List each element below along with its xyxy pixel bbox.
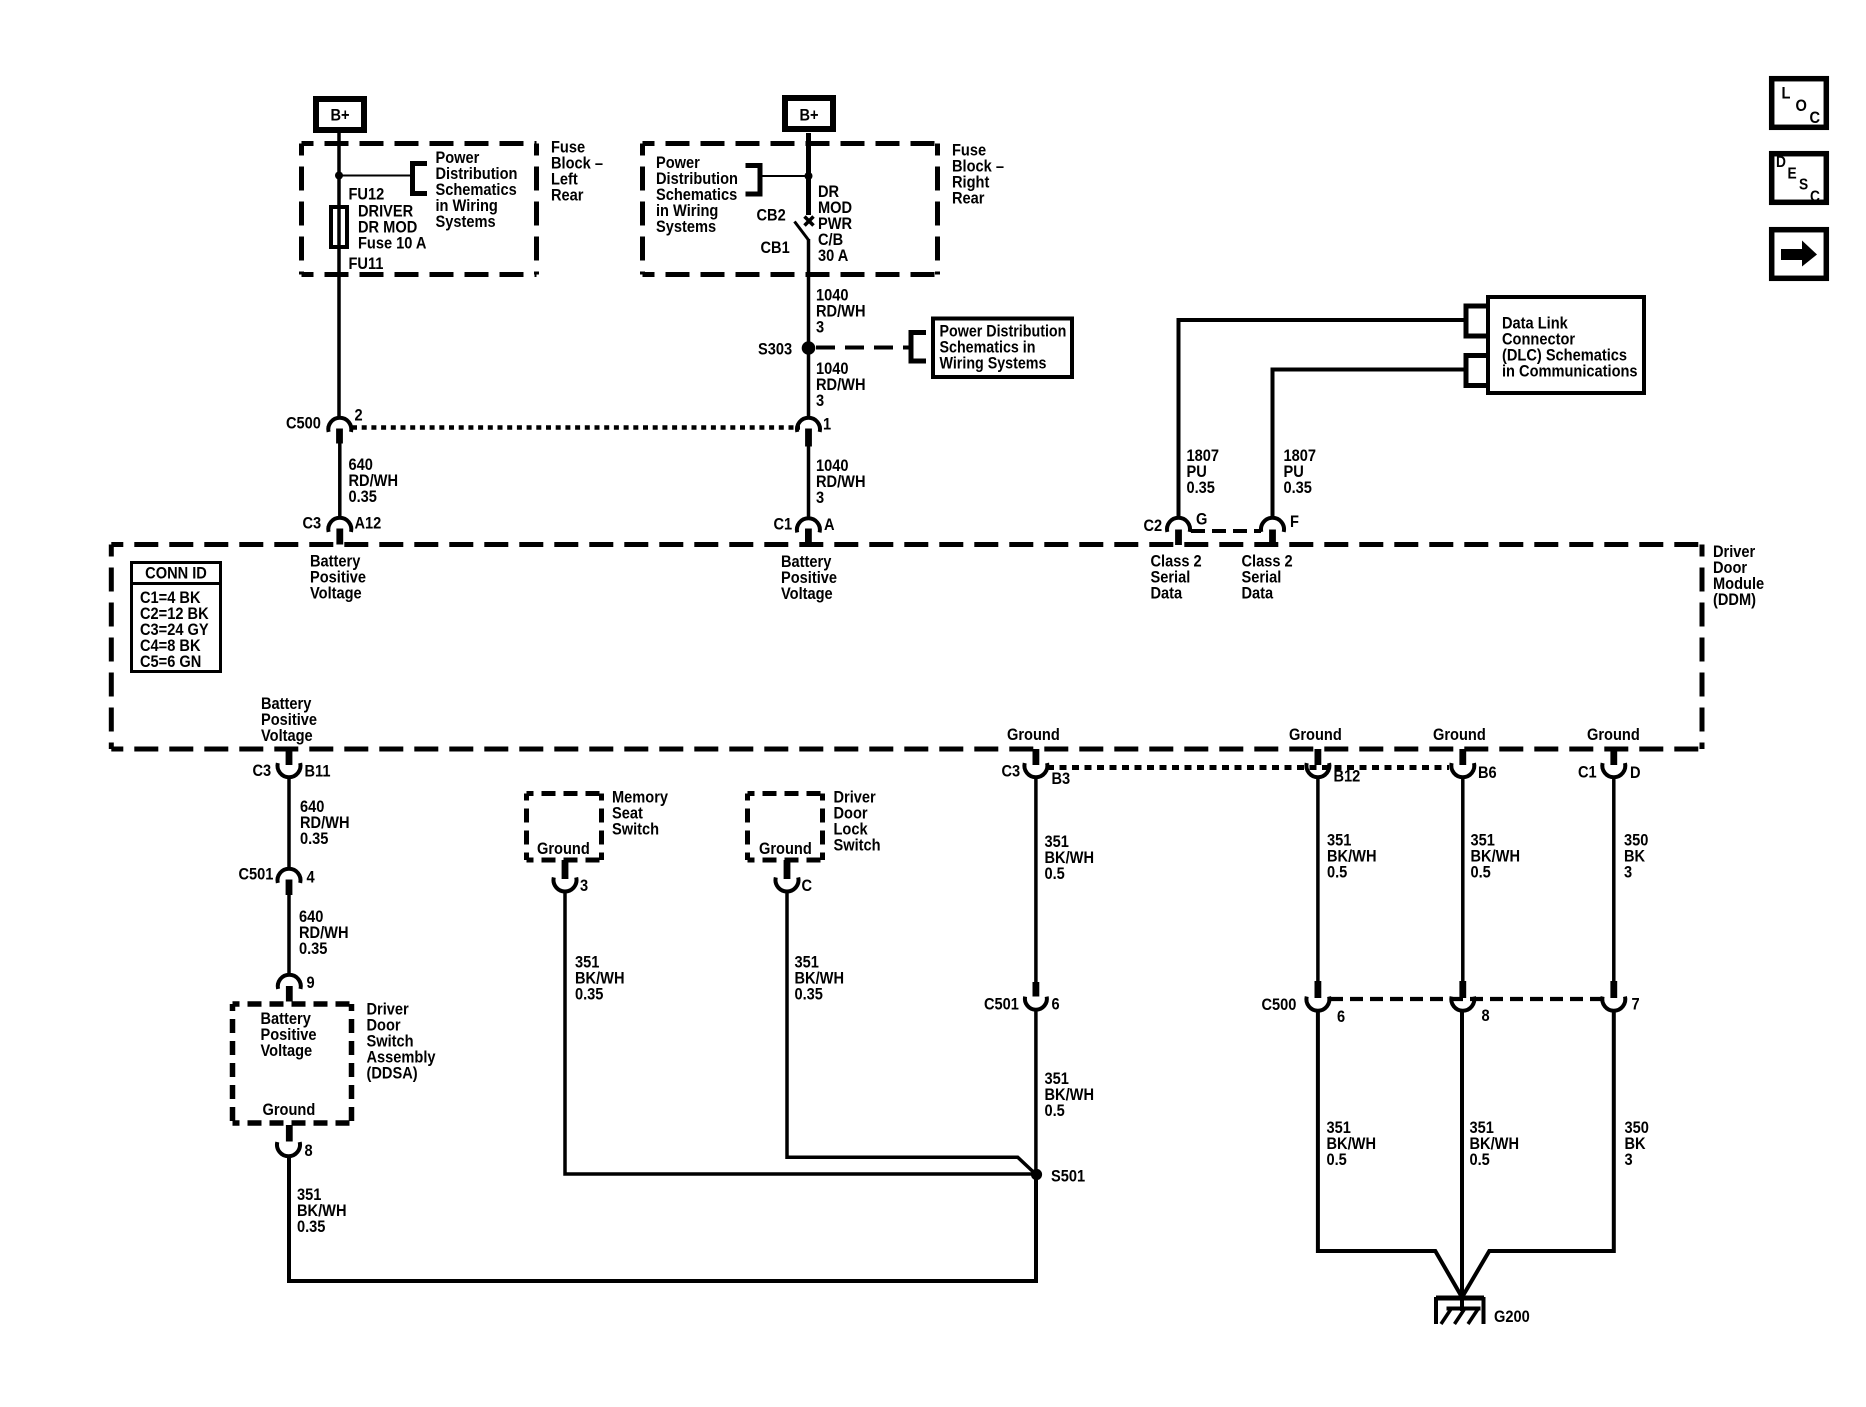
memory seat switch dashed box <box>527 791 602 796</box>
connector pin B6 out of DDM <box>1459 749 1466 765</box>
svg-text:6: 6 <box>1052 996 1060 1014</box>
svg-text:Switch: Switch <box>834 837 881 855</box>
svg-text:3: 3 <box>1624 864 1632 882</box>
svg-text:Rear: Rear <box>952 190 984 208</box>
svg-text:S: S <box>1799 176 1808 194</box>
svg-text:30 A: 30 A <box>818 247 849 265</box>
svg-text:C: C <box>1810 109 1821 127</box>
splice S501 <box>1031 1169 1042 1180</box>
svg-text:E: E <box>1788 164 1797 182</box>
connector pin 8 out of DDSA <box>286 1125 293 1142</box>
wire thick <box>806 133 811 215</box>
svg-text:C3: C3 <box>303 515 322 533</box>
svg-text:Voltage: Voltage <box>310 585 362 603</box>
fuse block left rear dashed box <box>302 141 537 146</box>
svg-text:3: 3 <box>816 319 824 337</box>
svg-text:C501: C501 <box>239 866 274 884</box>
fuse DRIVER DR MOD Fuse 10 A <box>331 207 347 247</box>
svg-text:B3: B3 <box>1052 770 1071 788</box>
svg-text:CONN ID: CONN ID <box>145 565 207 583</box>
svg-text:2: 2 <box>355 407 363 425</box>
svg-text:0.35: 0.35 <box>300 830 329 848</box>
svg-text:C5=6 GN: C5=6 GN <box>140 653 201 671</box>
dotted connector line C500 <box>352 425 800 430</box>
wire <box>337 133 341 418</box>
wire <box>1316 777 1320 983</box>
arrow legend box <box>1772 230 1827 279</box>
dashed connector line C500 6-8-7 <box>1330 997 1602 1001</box>
svg-text:C1: C1 <box>774 516 793 534</box>
connector C500 pin 1 <box>797 418 820 432</box>
svg-text:3: 3 <box>580 877 588 895</box>
svg-text:G200: G200 <box>1494 1308 1530 1326</box>
bracket pointer S303 box <box>911 333 926 362</box>
connector pin 3 memory seat <box>562 860 569 879</box>
svg-text:Ground: Ground <box>1007 726 1060 744</box>
svg-text:0.5: 0.5 <box>1045 1102 1065 1120</box>
DLC wire from F <box>1273 370 1465 519</box>
svg-text:FU11: FU11 <box>349 255 384 273</box>
svg-text:8: 8 <box>1482 1007 1490 1025</box>
svg-text:(DDM): (DDM) <box>1713 591 1756 609</box>
wire <box>1612 777 1616 983</box>
svg-text:D: D <box>1630 764 1641 782</box>
svg-text:0.35: 0.35 <box>299 940 328 958</box>
connector C500 pin 8 row2 <box>1459 981 1466 998</box>
DLC wire from C2 G <box>1179 320 1465 518</box>
svg-text:B+: B+ <box>799 107 818 125</box>
svg-text:4: 4 <box>307 869 315 887</box>
svg-text:0.5: 0.5 <box>1327 1151 1347 1169</box>
DESC legend box <box>1772 154 1827 203</box>
svg-text:8: 8 <box>305 1142 313 1160</box>
dashed connector line G-F <box>1191 529 1261 533</box>
wire to schematic bracket <box>339 175 412 177</box>
svg-text:FU12: FU12 <box>349 186 385 204</box>
wire <box>1461 777 1465 983</box>
wire <box>807 447 811 520</box>
svg-text:C2: C2 <box>1144 517 1163 535</box>
svg-text:0.35: 0.35 <box>795 986 824 1004</box>
svg-text:L: L <box>1782 85 1791 103</box>
svg-text:F: F <box>1290 513 1299 531</box>
svg-text:Ground: Ground <box>759 840 812 858</box>
wire to ground <box>1461 1011 1614 1300</box>
svg-text:C: C <box>802 877 813 895</box>
svg-text:C3: C3 <box>253 762 272 780</box>
svg-text:D: D <box>1776 153 1786 171</box>
svg-text:CB2: CB2 <box>757 207 786 225</box>
svg-text:Ground: Ground <box>1433 726 1486 744</box>
svg-text:C500: C500 <box>1262 996 1297 1014</box>
svg-text:3: 3 <box>816 392 824 410</box>
svg-text:0.35: 0.35 <box>297 1218 326 1236</box>
svg-text:C501: C501 <box>984 996 1019 1014</box>
svg-text:B+: B+ <box>330 107 349 125</box>
connector C3 pin B11 out of DDM <box>286 749 293 765</box>
svg-text:in Communications: in Communications <box>1502 363 1638 381</box>
svg-text:0.5: 0.5 <box>1471 864 1491 882</box>
svg-text:Voltage: Voltage <box>261 1042 313 1060</box>
wire <box>1034 777 1038 983</box>
connector pin F into DDM <box>1261 518 1284 532</box>
svg-text:0.5: 0.5 <box>1327 864 1347 882</box>
fuse block right rear dashed box <box>643 141 938 146</box>
svg-text:9: 9 <box>307 974 315 992</box>
driver door module DDM dashed box <box>111 542 1702 547</box>
battery feed B+ left <box>316 99 364 130</box>
wire <box>338 444 342 519</box>
svg-text:7: 7 <box>1632 996 1640 1014</box>
bracket pointer DLC lower <box>1466 356 1486 386</box>
reference box Power Distribution Schematics in Wiring Systems <box>933 319 1072 378</box>
svg-text:Ground: Ground <box>263 1101 316 1119</box>
svg-text:0.35: 0.35 <box>1284 479 1313 497</box>
wire to schematic bracket <box>762 175 809 177</box>
svg-text:Voltage: Voltage <box>781 585 833 603</box>
wire <box>287 777 291 869</box>
circuit breaker lever <box>795 222 809 241</box>
wire to ground <box>1318 1011 1463 1300</box>
svg-text:0.5: 0.5 <box>1045 865 1065 883</box>
LOC legend box <box>1772 79 1827 128</box>
svg-text:0.35: 0.35 <box>1187 479 1216 497</box>
connector pin C door lock <box>784 860 791 879</box>
connector C500 pin 7 row2 <box>1610 981 1617 998</box>
wire to ground <box>1460 1011 1464 1312</box>
CONN ID table <box>132 563 221 672</box>
wire <box>287 895 291 976</box>
svg-text:C: C <box>1810 187 1820 205</box>
svg-text:A12: A12 <box>355 515 382 533</box>
svg-text:B11: B11 <box>305 763 331 781</box>
svg-text:0.5: 0.5 <box>1470 1151 1490 1169</box>
svg-text:3: 3 <box>816 489 824 507</box>
wire memory seat to S501 <box>565 892 1033 1175</box>
svg-text:Data: Data <box>1151 585 1183 603</box>
svg-text:Fuse 10 A: Fuse 10 A <box>358 235 427 253</box>
bracket pointer right fuse block <box>746 166 761 195</box>
connector C3 pin B3 out of DDM <box>1033 749 1040 765</box>
svg-text:Systems: Systems <box>656 218 716 236</box>
svg-text:6: 6 <box>1337 1008 1345 1026</box>
svg-text:Rear: Rear <box>551 187 583 205</box>
wire <box>807 239 811 418</box>
svg-text:1: 1 <box>823 416 831 434</box>
svg-text:3: 3 <box>1625 1151 1633 1169</box>
svg-text:Systems: Systems <box>436 213 496 231</box>
connector pin 9 into DDSA <box>278 975 301 989</box>
junction dot FU12 tap <box>335 172 343 180</box>
connector pin B12 out of DDM <box>1315 749 1322 765</box>
splice S303 <box>802 341 816 355</box>
svg-text:O: O <box>1796 97 1807 115</box>
svg-text:S303: S303 <box>758 341 792 359</box>
reference box Data Link Connector DLC Schematics in Communications <box>1488 297 1644 393</box>
dashed wire to power distribution box <box>816 346 910 350</box>
svg-text:Ground: Ground <box>1289 726 1342 744</box>
svg-text:(DDSA): (DDSA) <box>367 1065 418 1083</box>
driver door switch assembly DDSA dashed box <box>233 1001 352 1007</box>
battery feed B+ right <box>785 98 833 129</box>
junction dot CB tap <box>805 172 813 180</box>
svg-text:Data: Data <box>1242 585 1274 603</box>
svg-text:CB1: CB1 <box>761 239 790 257</box>
wire door lock to S501 <box>787 892 1035 1174</box>
svg-text:B6: B6 <box>1478 764 1497 782</box>
svg-text:Ground: Ground <box>1587 726 1640 744</box>
svg-text:Ground: Ground <box>537 840 590 858</box>
svg-text:B12: B12 <box>1334 768 1361 786</box>
wire <box>1034 1010 1038 1170</box>
svg-text:G: G <box>1196 511 1207 529</box>
driver door lock switch dashed box <box>748 791 823 796</box>
ground G200 <box>1436 1296 1484 1301</box>
svg-text:C3: C3 <box>1002 763 1021 781</box>
wire to S501 <box>289 1156 1036 1281</box>
svg-text:Voltage: Voltage <box>261 727 313 745</box>
bracket pointer left fuse block <box>413 164 428 194</box>
svg-text:A: A <box>824 516 835 534</box>
svg-text:C1: C1 <box>1578 764 1597 782</box>
dotted connector line B3-B12-B6 <box>1047 765 1449 770</box>
circuit breaker DR MOD PWR C/B 30 A contact x <box>805 217 814 226</box>
svg-text:0.35: 0.35 <box>575 986 604 1004</box>
bracket pointer DLC upper <box>1466 306 1486 336</box>
svg-text:0.35: 0.35 <box>349 488 378 506</box>
svg-text:Wiring Systems: Wiring Systems <box>940 354 1047 372</box>
svg-text:Switch: Switch <box>612 821 659 839</box>
svg-text:C500: C500 <box>286 415 321 433</box>
svg-text:S501: S501 <box>1051 1168 1085 1186</box>
